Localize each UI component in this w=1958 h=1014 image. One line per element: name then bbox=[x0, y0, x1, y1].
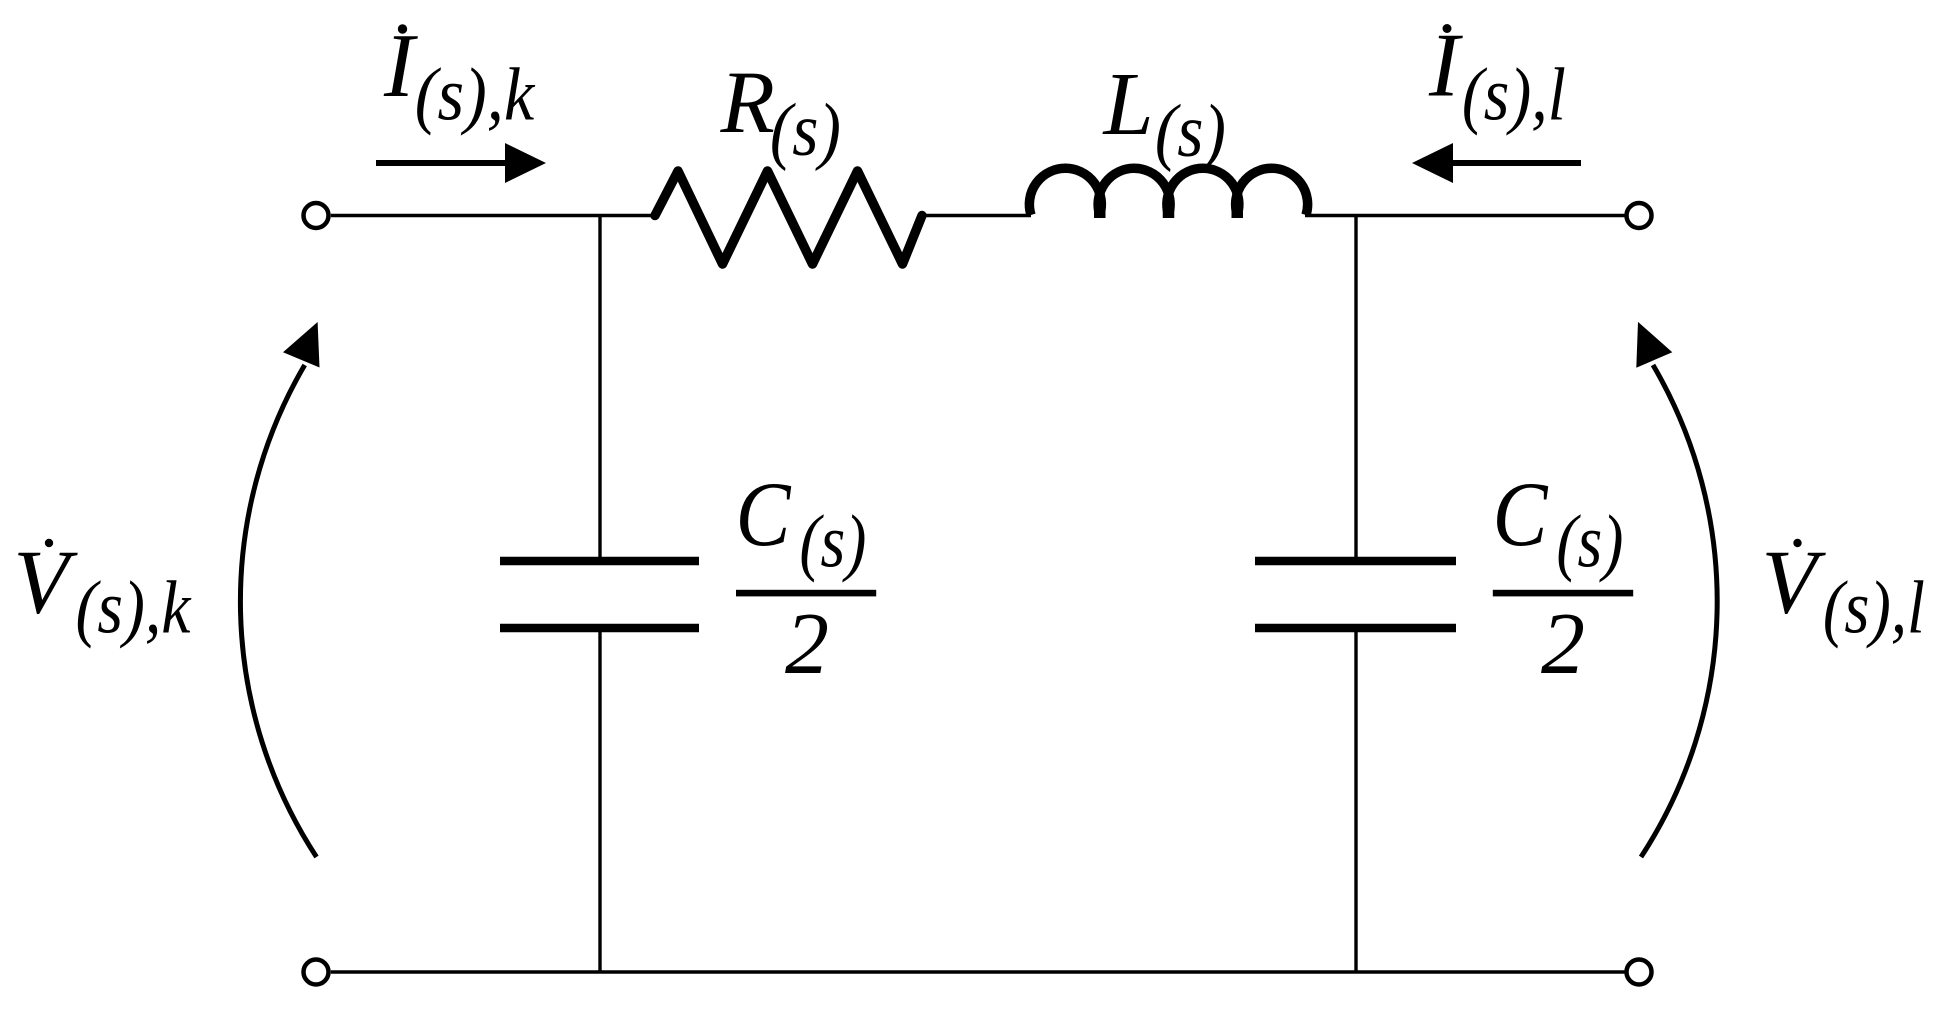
current arrow I(s),k bbox=[376, 160, 506, 166]
svg-text:(s),k: (s),k bbox=[415, 53, 536, 136]
wire between resistor and inductor bbox=[921, 214, 1031, 217]
wire top-left segment bbox=[331, 214, 656, 217]
voltage arrow V(s),l (curved) bbox=[1641, 365, 1717, 857]
wire left shunt upper bbox=[598, 216, 601, 558]
terminal bottom-right bbox=[1627, 960, 1652, 985]
terminal bottom-left bbox=[304, 960, 329, 985]
svg-text:(s),l: (s),l bbox=[1823, 567, 1925, 650]
capacitor C(s)/2 left: bottom plate bbox=[500, 624, 699, 633]
wire bottom bbox=[331, 970, 1625, 973]
svg-text:(s): (s) bbox=[1556, 500, 1623, 583]
current arrow I(s),l bbox=[1453, 160, 1581, 166]
label I(s),k bbox=[398, 24, 407, 33]
wire left shunt lower bbox=[598, 632, 601, 973]
wire top-right segment bbox=[1305, 214, 1625, 217]
capacitor C(s)/2 right: bottom plate bbox=[1255, 624, 1456, 633]
label V(s),l bbox=[1793, 539, 1801, 547]
svg-text:2: 2 bbox=[1541, 596, 1585, 693]
resistor R(s) bbox=[655, 171, 922, 264]
label I(s),l bbox=[1443, 24, 1452, 33]
svg-text:2: 2 bbox=[785, 596, 829, 693]
terminal top-left bbox=[304, 203, 329, 228]
svg-text:(s): (s) bbox=[1155, 90, 1226, 173]
svg-text:L: L bbox=[1102, 55, 1154, 154]
capacitor C(s)/2 left: top plate bbox=[500, 557, 699, 566]
label V(s),k bbox=[45, 539, 53, 547]
wire right shunt lower bbox=[1354, 632, 1357, 973]
svg-text:(s): (s) bbox=[799, 500, 866, 583]
svg-text:I: I bbox=[383, 15, 418, 116]
inductor L(s) bbox=[1029, 168, 1101, 215]
svg-text:(s): (s) bbox=[770, 89, 841, 172]
svg-text:R: R bbox=[720, 54, 775, 152]
svg-text:C: C bbox=[1493, 463, 1549, 565]
svg-text:(s),k: (s),k bbox=[76, 567, 192, 650]
voltage arrow V(s),k (curved) bbox=[240, 365, 316, 857]
svg-text:V: V bbox=[1762, 531, 1827, 632]
terminal top-right bbox=[1627, 203, 1652, 228]
svg-text:(s),l: (s),l bbox=[1462, 53, 1566, 136]
wire right shunt upper bbox=[1354, 216, 1357, 558]
svg-text:I: I bbox=[1428, 15, 1463, 116]
svg-text:C: C bbox=[736, 463, 792, 565]
svg-text:V: V bbox=[13, 531, 78, 632]
capacitor C(s)/2 right: top plate bbox=[1255, 557, 1456, 566]
